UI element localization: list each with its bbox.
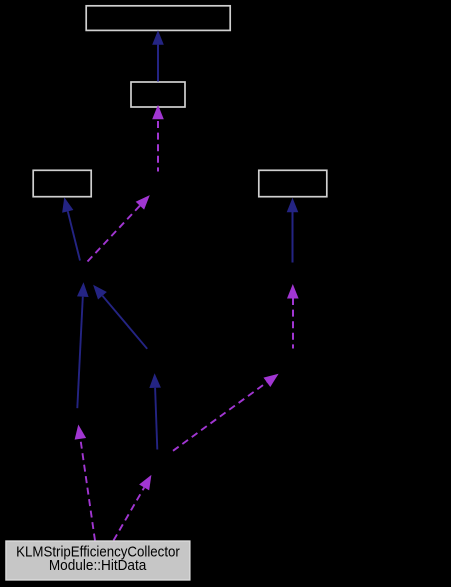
edge E5: solid arrow into right box bottom: [287, 198, 299, 263]
edge E9: long solid arrow left column up to junction: [77, 282, 89, 408]
edge E4: solid arrow into left box bottom: [62, 197, 80, 260]
edge E6: dashed vertical arrow in right column: [287, 284, 299, 349]
node box: left class: [33, 170, 91, 196]
svg-text:Module::HitData: Module::HitData: [49, 558, 147, 574]
edge E15: solid diagonal arrow up-left to junction: [93, 285, 147, 349]
edge E2: dashed usage arrow into second box bottom: [152, 105, 164, 172]
node box: KLMStripEfficiencyCollectorModule::HitData (gray main node): [6, 541, 190, 580]
node box: top base class (empty black label): [86, 6, 230, 31]
edge E1: solid inheritance arrow from second box to top box: [152, 30, 164, 81]
node box: right class: [259, 170, 327, 196]
edge E3: dashed diagonal arrow up-right toward second box chain: [88, 195, 150, 261]
edge E13: dashed diagonal arrow up-right lower area: [173, 374, 279, 451]
edge E11: dashed arrow from HitData box up-right: [114, 475, 152, 541]
node box: second-level class: [131, 82, 185, 107]
edge E14: solid vertical arrow center: [149, 373, 161, 449]
edge E10: dashed arrow from HitData box up-left: [75, 425, 95, 541]
